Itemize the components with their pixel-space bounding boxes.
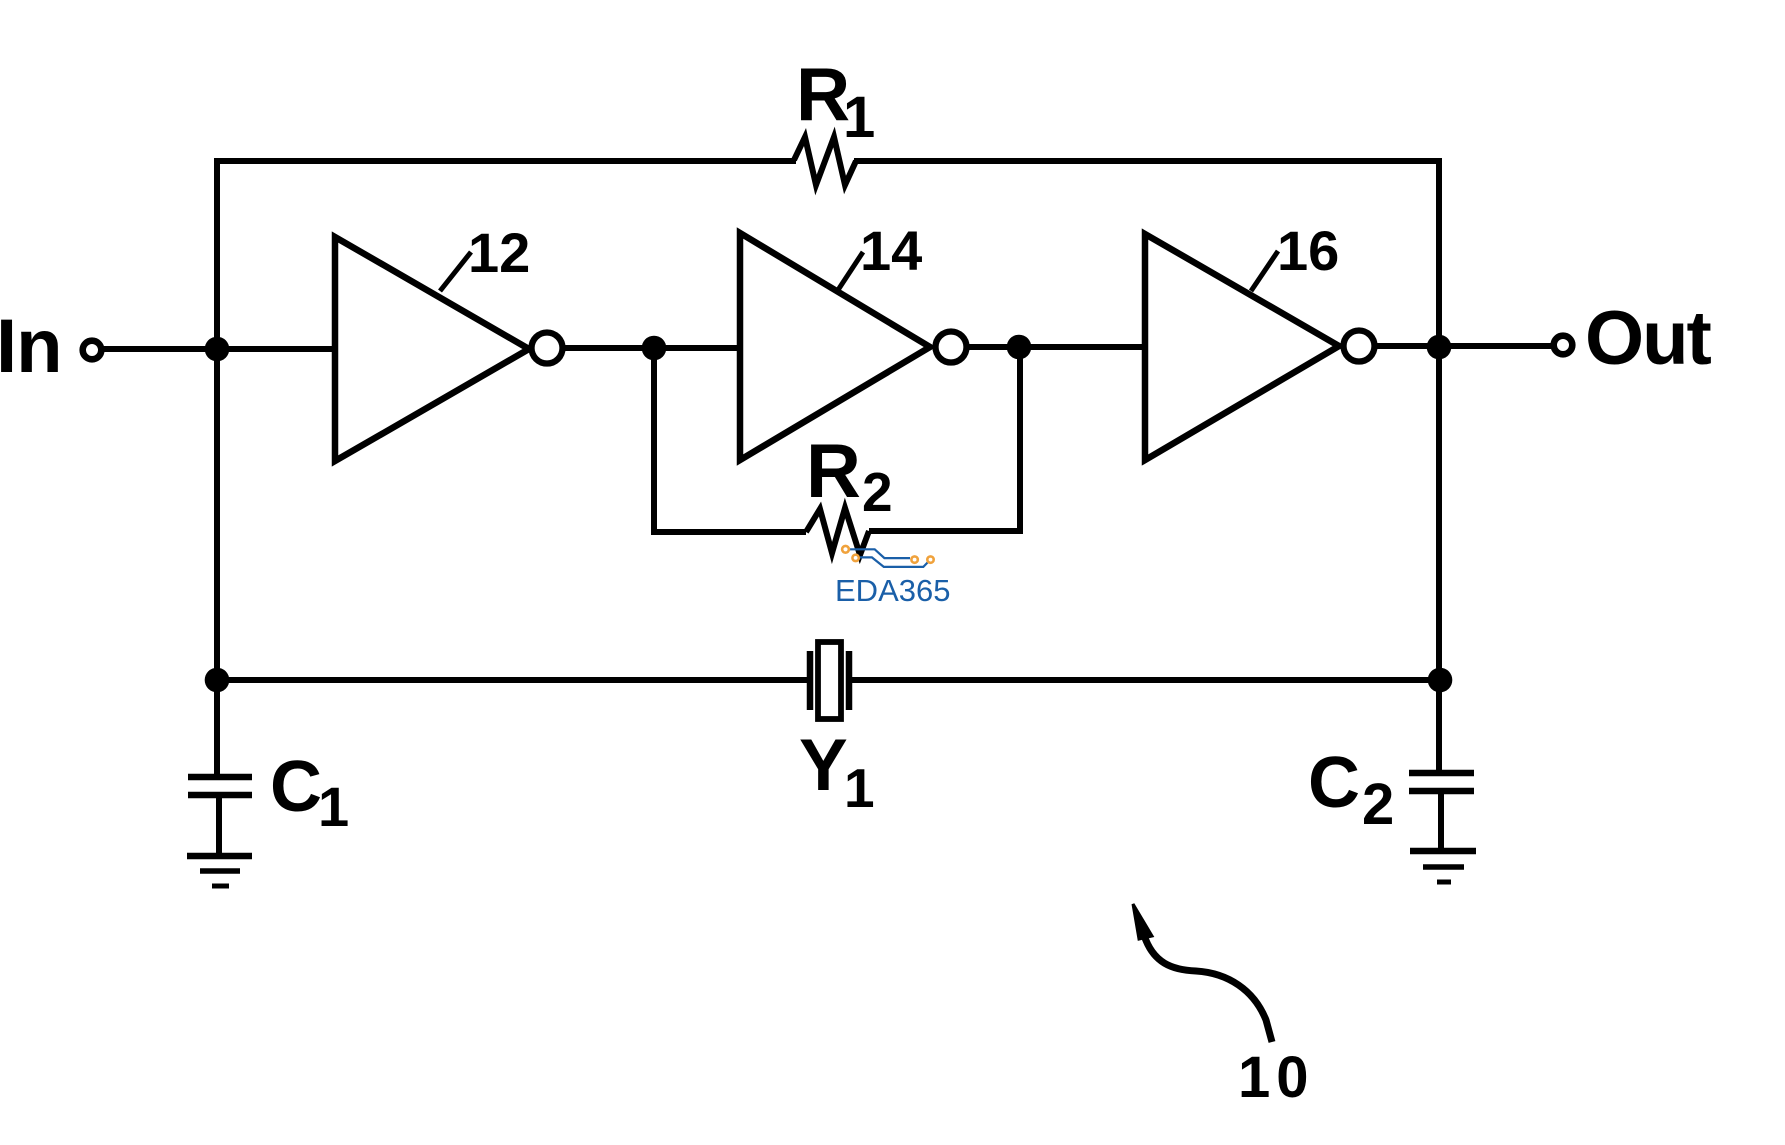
svg-text:2: 2	[1362, 772, 1394, 837]
capacitor C1	[188, 777, 252, 854]
svg-text:In: In	[0, 304, 62, 389]
inverter U16	[1145, 234, 1375, 460]
EDA365 watermark	[835, 546, 950, 608]
wire bottom rail left	[217, 677, 808, 683]
output terminal Out	[1554, 336, 1573, 355]
svg-text:2: 2	[862, 461, 893, 523]
wire inv14 out	[967, 344, 1145, 350]
svg-text:10: 10	[1238, 1045, 1315, 1110]
node C	[1007, 335, 1032, 360]
svg-text:C: C	[270, 747, 322, 827]
svg-text:EDA365: EDA365	[835, 573, 950, 608]
wire top rail right	[854, 158, 1442, 164]
resistor R1	[794, 137, 856, 185]
wire inv16 out	[1375, 343, 1554, 349]
wire top rail left	[214, 158, 796, 164]
node F	[1428, 668, 1453, 693]
wire R2 loop right	[869, 347, 1020, 531]
svg-text:1: 1	[318, 775, 349, 838]
wire R2 loop left	[654, 348, 806, 532]
node E	[205, 668, 230, 693]
leader 14	[838, 252, 863, 290]
wire left vertical	[214, 158, 220, 776]
capacitor C2	[1409, 773, 1474, 849]
inverter U12	[335, 237, 563, 461]
svg-text:R: R	[806, 429, 861, 514]
ground G2	[1410, 851, 1476, 882]
inverter U14	[740, 233, 967, 460]
svg-text:16: 16	[1277, 219, 1339, 282]
svg-text:12: 12	[468, 221, 530, 284]
leader 16	[1251, 251, 1278, 291]
svg-text:Out: Out	[1585, 296, 1712, 381]
reference arrow 10	[1133, 904, 1272, 1042]
wire In lead	[101, 346, 335, 352]
crystal Y1	[810, 642, 849, 719]
input terminal In	[83, 341, 102, 360]
wire right vertical	[1436, 158, 1442, 770]
ground G1	[187, 856, 252, 886]
svg-text:1: 1	[843, 85, 875, 150]
node B	[642, 336, 667, 361]
svg-text:1: 1	[844, 757, 875, 819]
leader 12	[440, 252, 471, 291]
resistor R2	[806, 508, 869, 555]
node A	[205, 337, 230, 362]
node D	[1427, 335, 1452, 360]
svg-text:Y: Y	[799, 725, 848, 806]
wire bottom rail right	[851, 677, 1440, 683]
svg-text:14: 14	[860, 219, 922, 282]
svg-text:C: C	[1308, 743, 1360, 823]
wire inv12 out	[563, 345, 740, 351]
